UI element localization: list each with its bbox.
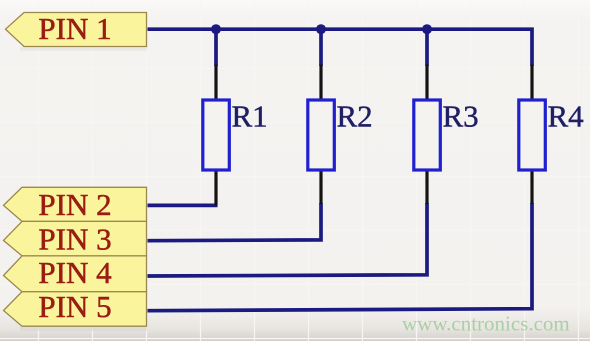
svg-text:www.cntronics.com: www.cntronics.com <box>402 312 570 336</box>
svg-text:R2: R2 <box>337 99 373 134</box>
svg-text:PIN 1: PIN 1 <box>38 11 111 46</box>
svg-text:R4: R4 <box>548 99 585 134</box>
svg-text:PIN 3: PIN 3 <box>38 221 111 256</box>
svg-text:R1: R1 <box>232 99 268 134</box>
svg-text:PIN 2: PIN 2 <box>38 187 111 222</box>
svg-text:R3: R3 <box>443 99 479 134</box>
svg-text:PIN 4: PIN 4 <box>38 255 112 290</box>
svg-text:PIN 5: PIN 5 <box>38 289 111 324</box>
